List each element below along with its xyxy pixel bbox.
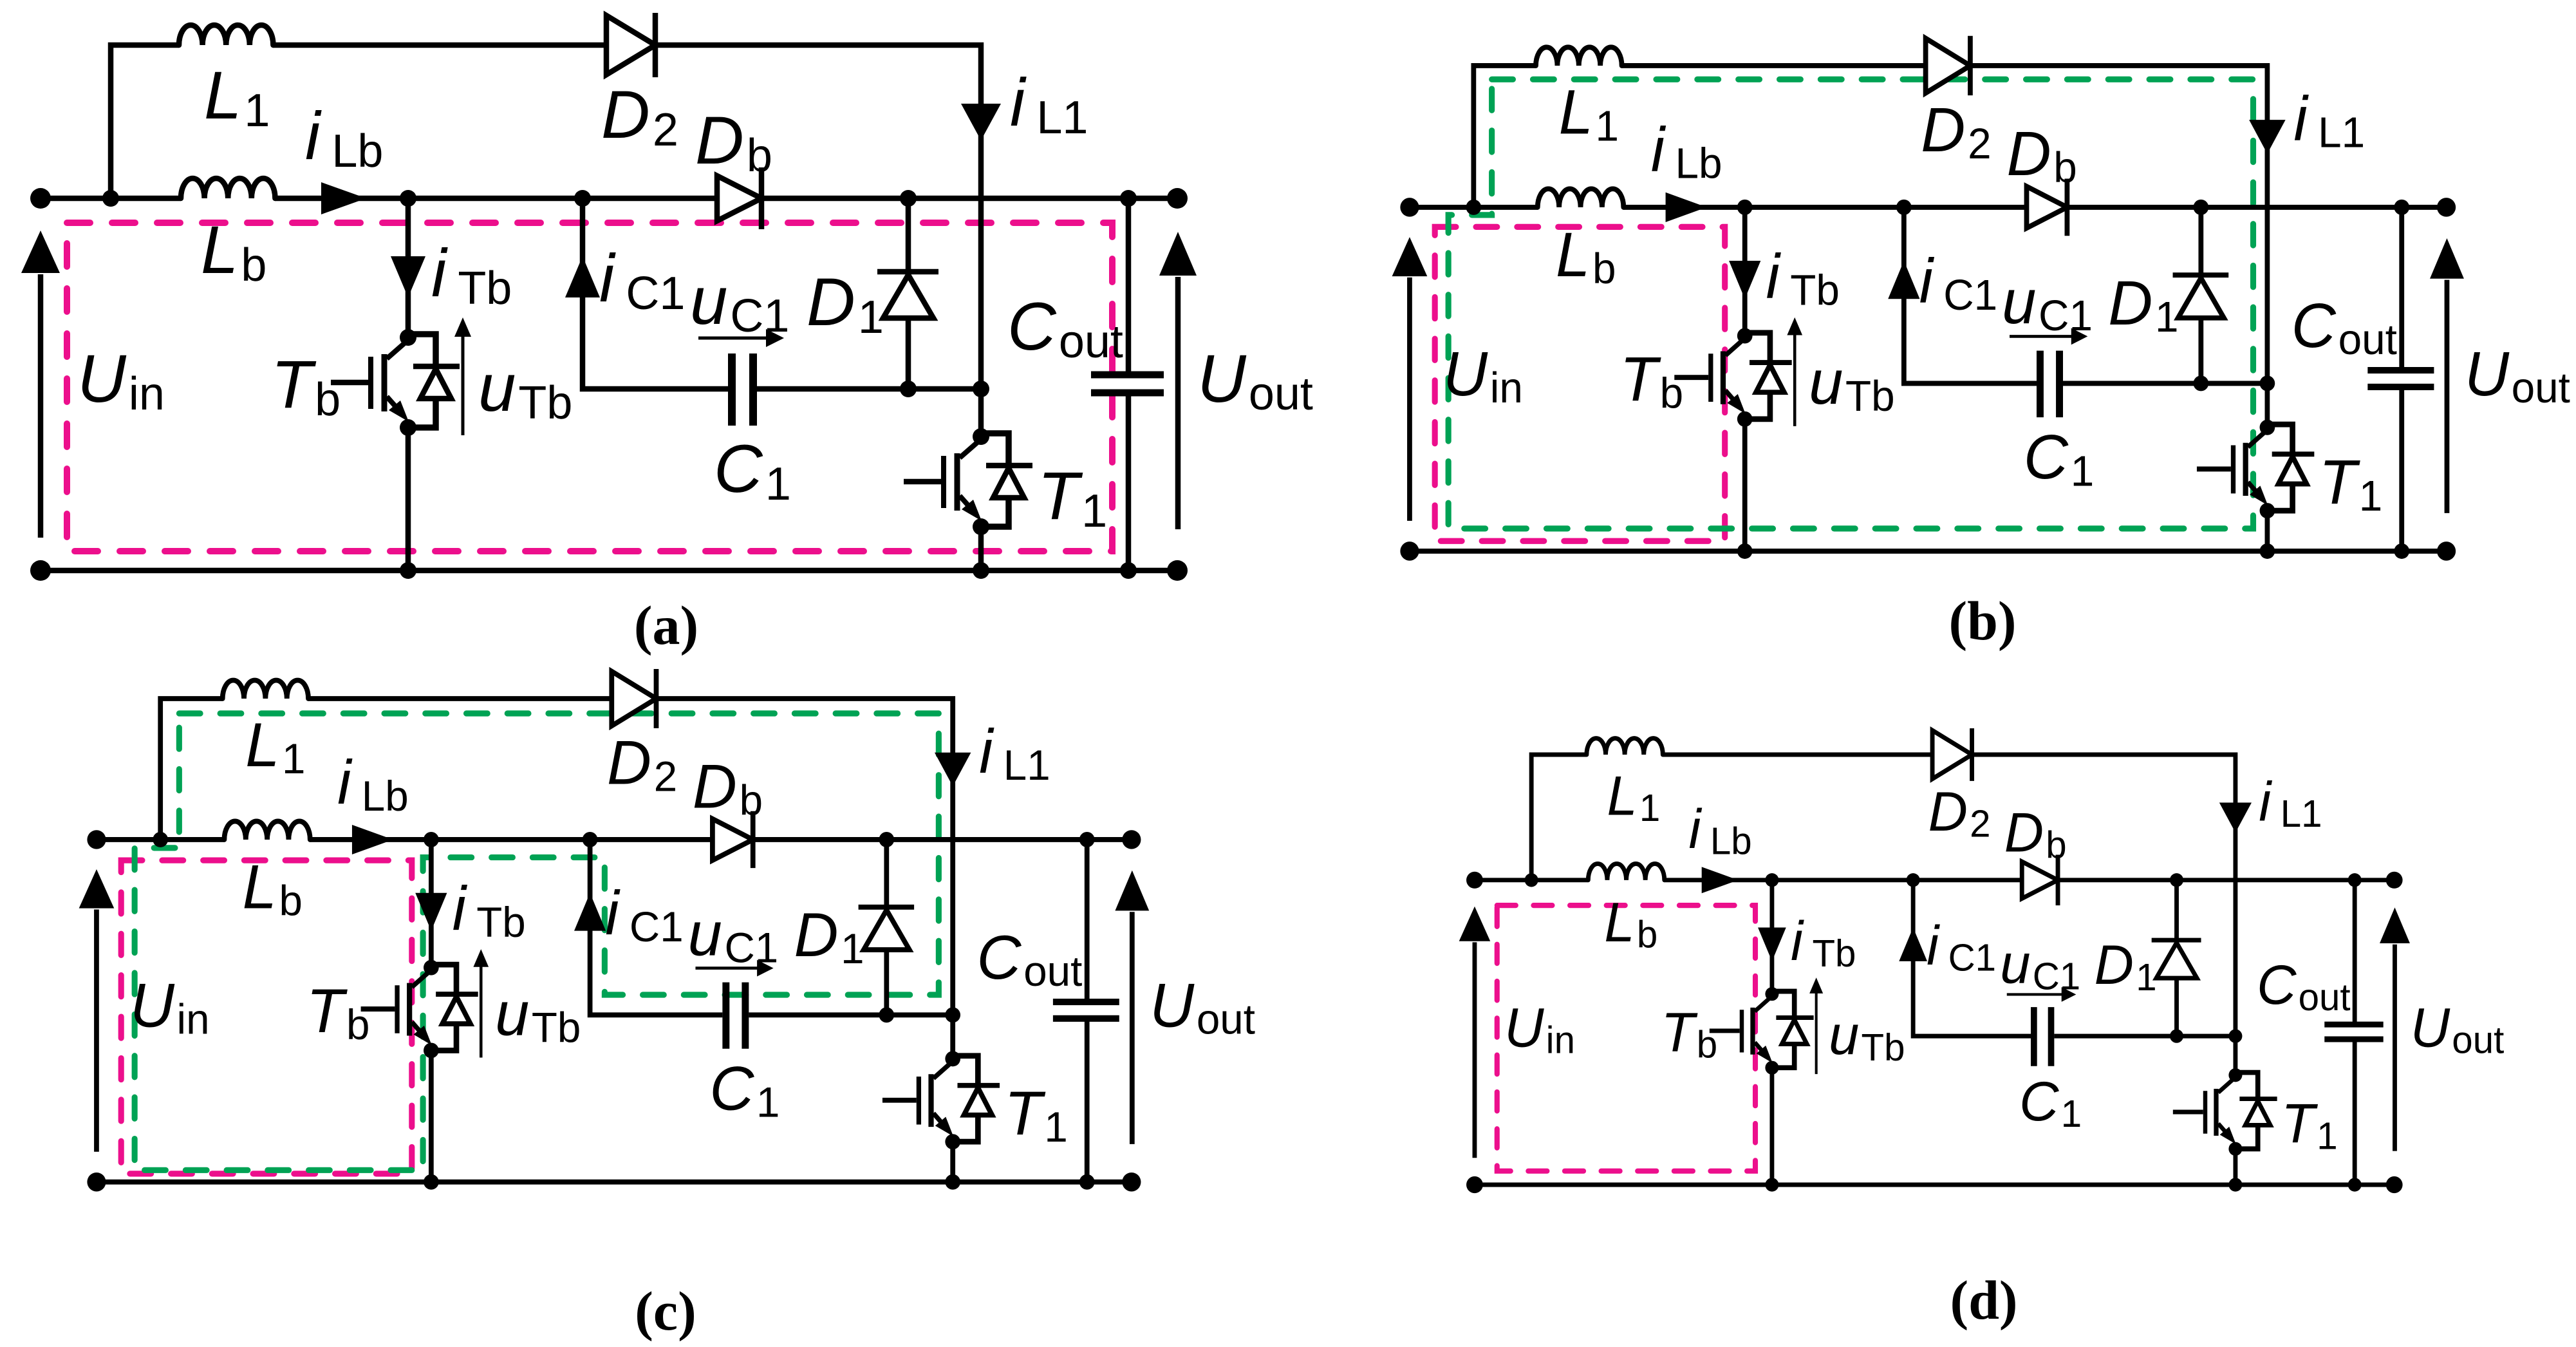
- wire: C1 to D1/T1 junction: [749, 1012, 953, 1018]
- wire: Tb branch from bus: [1769, 880, 1775, 994]
- node: iC1 top: [583, 832, 598, 847]
- wire: main bus left segment: [97, 837, 224, 843]
- source arrow Uin: [21, 231, 60, 538]
- node: Tb top: [1737, 200, 1753, 215]
- wire: main bus left segment: [41, 196, 181, 202]
- inductor Lb: [181, 178, 275, 198]
- node: L1 junction: [153, 832, 168, 847]
- node: output bottom-right: [2437, 542, 2456, 561]
- current arrow iTb: [1729, 261, 1760, 299]
- current arrow iLb: [1666, 193, 1707, 222]
- inductor L1: [1536, 47, 1622, 66]
- output arrow Uout: [2380, 907, 2410, 1151]
- wire: iC1 branch from bus down and to C1: [590, 840, 723, 1015]
- wire: iC1 branch from bus down and to C1: [1913, 880, 2031, 1036]
- green dashed loop (c): [135, 713, 938, 1170]
- node: output bottom-right: [1167, 560, 1188, 581]
- source arrow Uin: [1459, 907, 1491, 1158]
- node: output top-right: [1167, 188, 1188, 209]
- current arrow iC1: [574, 893, 606, 931]
- voltage arrow uC1: [2007, 987, 2077, 1002]
- wire: T1 collector stub: [2264, 383, 2270, 427]
- voltage arrow uTb: [454, 317, 471, 435]
- wire: C1 to D1/T1 junction: [2054, 1033, 2235, 1039]
- voltage arrow uC1: [695, 960, 773, 977]
- voltage arrow uC1: [698, 329, 784, 347]
- wire: main bus from Lb to right end: [310, 837, 1132, 843]
- wire: T1 emitter to bottom rail: [950, 1142, 956, 1182]
- node: T1 top: [2228, 1029, 2242, 1042]
- node: L1 junction: [1525, 873, 1538, 887]
- capacitor Cout branch: [1053, 840, 1119, 1182]
- wire: T1 emitter to bottom rail: [978, 527, 984, 570]
- node: input bottom-left: [1400, 542, 1419, 561]
- diode D2: [606, 13, 655, 77]
- node: input bottom-left: [30, 560, 51, 581]
- node: D1 top: [2170, 873, 2183, 887]
- node: input top-left: [1466, 872, 1483, 889]
- wire: main bus from Lb to right end: [1623, 205, 2446, 211]
- node: D1 top: [2193, 200, 2208, 215]
- node: T1 top: [973, 381, 989, 397]
- wire: top wire from D2 to iL1 corner, down to T1: [657, 45, 981, 389]
- inductor Lb: [224, 821, 310, 840]
- node: input top-left: [87, 830, 106, 849]
- current arrow iL1: [961, 104, 1001, 140]
- transistor Tb (IGBT with antiparallel diode): [1710, 987, 1814, 1075]
- diode Db: [717, 167, 761, 229]
- output arrow Uout: [1115, 871, 1149, 1144]
- node: Cout top: [2348, 873, 2362, 887]
- voltage arrow uTb: [1787, 317, 1802, 426]
- node: Cout top: [1079, 832, 1095, 847]
- wire: L1 branch vertical from input node: [111, 45, 179, 198]
- wire: bottom rail: [97, 1179, 1132, 1185]
- transistor Tb (IGBT with antiparallel diode): [1674, 328, 1791, 426]
- diode D2: [1926, 36, 1970, 95]
- transistor Tb (IGBT with antiparallel diode): [361, 960, 478, 1059]
- current arrow iLb: [1702, 867, 1739, 893]
- wire: top wire from L1 to D2: [273, 42, 608, 48]
- current arrow iL1: [935, 753, 971, 786]
- node: Cout top: [2394, 200, 2409, 215]
- inductor Lb: [1538, 189, 1624, 207]
- node: Tb bottom: [1765, 1178, 1778, 1191]
- node: L1 junction: [1466, 200, 1482, 215]
- capacitor C1: [2034, 1007, 2051, 1066]
- svg-text:(d): (d): [1950, 1269, 2017, 1331]
- capacitor C1: [726, 983, 745, 1049]
- transistor T1 (IGBT with antiparallel diode): [882, 1051, 1000, 1149]
- transistor T1 (IGBT with antiparallel diode): [904, 428, 1032, 535]
- wire: Tb emitter to bottom rail: [429, 1050, 434, 1182]
- wire: main bus from Lb to right end: [1665, 878, 2394, 883]
- transistor T1 (IGBT with antiparallel diode): [2173, 1068, 2277, 1156]
- node: D1 top: [879, 832, 894, 847]
- node: output top-right: [2437, 198, 2456, 217]
- wire: top wire from L1 to D2: [1663, 752, 1933, 758]
- current arrow iC1: [565, 256, 600, 297]
- node: T1 top: [945, 1007, 960, 1022]
- current arrow iLb: [321, 182, 366, 214]
- source arrow Uin: [79, 869, 115, 1152]
- inductor L1: [1587, 739, 1663, 755]
- diode Db: [2026, 179, 2067, 236]
- wire: top wire from D2 to iL1 corner, down to T1: [1973, 755, 2235, 1036]
- node: Tb bottom: [400, 562, 416, 579]
- voltage arrow uC1: [2010, 328, 2087, 344]
- capacitor C1: [2040, 351, 2059, 417]
- magenta dashed loop (d): [1497, 905, 1755, 1171]
- wire: main bus left segment: [1475, 878, 1588, 883]
- diode Db: [2022, 855, 2058, 906]
- wire: T1 emitter to bottom rail: [2264, 511, 2270, 551]
- wire: iC1 branch from bus down and to C1: [583, 198, 728, 389]
- wire: T1 emitter to bottom rail: [2233, 1149, 2239, 1185]
- current arrow iLb: [352, 825, 393, 854]
- wire: top wire from L1 to D2: [1622, 63, 1927, 69]
- magenta dashed loop (a): [67, 223, 1112, 551]
- capacitor C1: [732, 353, 753, 426]
- node: D1 bottom: [879, 1007, 894, 1022]
- wire: Tb branch from bus: [406, 198, 411, 337]
- wire: C1 to D1/T1 junction: [2063, 381, 2267, 386]
- node: input bottom-left: [1466, 1176, 1483, 1193]
- diode D1 branch: [877, 198, 938, 389]
- wire: C1 to D1/T1 junction: [757, 386, 981, 392]
- capacitor Cout branch: [2367, 207, 2434, 551]
- node: Cout bottom: [1120, 562, 1137, 579]
- node: Cout top: [1120, 190, 1137, 207]
- circuit (b): [1392, 36, 2570, 561]
- current arrow iL1: [2249, 120, 2286, 154]
- svg-text:(b): (b): [1948, 590, 2016, 652]
- source arrow Uin: [1392, 237, 1428, 521]
- wire: main bus from Lb to right end: [275, 196, 1177, 202]
- node: T1 bottom: [2260, 543, 2275, 559]
- node: Cout bottom: [1079, 1174, 1095, 1190]
- transistor Tb (IGBT with antiparallel diode): [331, 329, 460, 436]
- output arrow Uout: [2430, 238, 2464, 513]
- wire: L1 branch vertical from input node: [1531, 755, 1587, 880]
- current arrow iTb: [415, 893, 447, 931]
- node: T1 bottom: [945, 1174, 960, 1190]
- wire: Tb branch from bus: [429, 840, 434, 968]
- wire: main bus left segment: [1410, 205, 1538, 211]
- wire: bottom rail: [41, 568, 1177, 574]
- transistor T1 (IGBT with antiparallel diode): [2197, 420, 2314, 518]
- inductor L1: [179, 25, 273, 45]
- wire: bottom rail: [1475, 1182, 2394, 1188]
- node: D1 bottom: [900, 381, 917, 397]
- svg-text:(a): (a): [634, 594, 698, 656]
- node: Cout bottom: [2348, 1178, 2362, 1191]
- wire: top wire from L1 to D2: [308, 696, 613, 702]
- node: D1 top: [900, 190, 917, 207]
- node: input top-left: [1400, 198, 1419, 217]
- diode D1 branch: [2173, 207, 2229, 384]
- output arrow Uout: [1159, 232, 1197, 529]
- wire: L1 branch vertical from input node: [1473, 66, 1536, 207]
- wire: iC1 branch from bus down and to C1: [1904, 207, 2037, 384]
- inductor L1: [223, 680, 308, 699]
- magenta dashed loop (b): [1435, 227, 1725, 541]
- node: T1 top: [2260, 375, 2275, 391]
- wire: T1 collector stub: [2233, 1036, 2239, 1075]
- node: Cout bottom: [2394, 543, 2409, 559]
- inductor Lb: [1588, 863, 1664, 880]
- diode D1 branch: [2152, 880, 2201, 1036]
- wire: L1 branch vertical from input node: [160, 699, 223, 840]
- voltage arrow uTb: [473, 949, 489, 1057]
- node: Tb top: [424, 832, 439, 847]
- node: L1 junction: [102, 190, 119, 207]
- node: output bottom-right: [2386, 1176, 2403, 1193]
- capacitor Cout branch: [1091, 198, 1164, 570]
- node: Tb bottom: [424, 1174, 439, 1190]
- node: iC1 top: [574, 190, 591, 207]
- wire: Tb emitter to bottom rail: [1742, 419, 1748, 551]
- diode D2: [611, 669, 656, 728]
- current arrow iC1: [1899, 928, 1927, 961]
- magenta dashed loop (c): [121, 860, 412, 1174]
- node: D1 bottom: [2170, 1029, 2183, 1042]
- node: output top-right: [2386, 872, 2403, 889]
- node: T1 bottom: [2228, 1178, 2242, 1191]
- voltage arrow uTb: [1809, 977, 1823, 1074]
- circuit (d): [1459, 728, 2505, 1193]
- node: input bottom-left: [87, 1173, 106, 1191]
- circuit (a): [21, 13, 1313, 581]
- wire: T1 collector stub: [950, 1015, 956, 1059]
- green dashed loop (b): [1448, 79, 2253, 529]
- wire: T1 collector stub: [978, 389, 984, 437]
- node: iC1 top: [1907, 873, 1920, 887]
- diode D1 branch: [859, 840, 914, 1015]
- wire: bottom rail: [1410, 549, 2447, 554]
- svg-text:(c): (c): [635, 1280, 696, 1342]
- node: iC1 top: [1896, 200, 1912, 215]
- wire: Tb emitter to bottom rail: [1769, 1068, 1775, 1185]
- node: D1 bottom: [2193, 375, 2208, 391]
- node: input top-left: [30, 188, 51, 209]
- circuit (c): [79, 669, 1255, 1191]
- wire: top wire from D2 to iL1 corner, down to T1: [1972, 66, 2268, 383]
- node: output top-right: [1122, 830, 1141, 849]
- wire: Tb emitter to bottom rail: [406, 428, 411, 570]
- node: Tb top: [1765, 873, 1778, 887]
- node: T1 bottom: [973, 562, 989, 579]
- current arrow iC1: [1888, 261, 1919, 299]
- diode Db: [713, 811, 753, 868]
- diode D2: [1932, 728, 1972, 781]
- current arrow iTb: [391, 256, 425, 297]
- node: Tb top: [400, 190, 416, 207]
- wire: top wire from D2 to iL1 corner, down to T1: [657, 699, 953, 1015]
- current arrow iTb: [1758, 928, 1786, 961]
- wire: Tb branch from bus: [1742, 207, 1748, 336]
- node: Tb bottom: [1737, 543, 1753, 559]
- current arrow iL1: [2219, 802, 2252, 833]
- capacitor Cout branch: [2324, 880, 2383, 1185]
- node: output bottom-right: [1122, 1173, 1141, 1191]
